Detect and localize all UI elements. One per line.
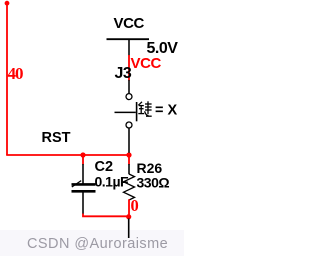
capacitor C2 top plate: [72, 183, 96, 186]
wire bottom red corner from capacitor to node 0: [83, 214, 129, 217]
wire VCC stem (black): [128, 39, 130, 55]
connector J3 pin 2 circle: [126, 122, 132, 128]
connector J3 pin 1 circle: [126, 94, 132, 100]
watermark strip: [0, 230, 184, 256]
svg-text:J3: J3: [115, 65, 132, 82]
wire below node 0 (black): [128, 219, 130, 239]
junction dot node 0: [126, 214, 131, 219]
svg-text:RST: RST: [42, 130, 71, 146]
svg-text:VCC: VCC: [131, 55, 162, 72]
wire RST horizontal (red): [6, 154, 129, 156]
capacitor C2 top plate slash: [72, 181, 81, 187]
wire J3 pin 2 to RST node (black): [128, 128, 130, 153]
power VCC terminal bar: [107, 38, 150, 40]
wire red stub below RST node to resistor: [128, 155, 130, 165]
wire capacitor bottom lead (black): [82, 193, 84, 215]
wire capacitor top lead (black): [82, 164, 84, 184]
svg-text:330Ω: 330Ω: [137, 175, 170, 191]
resistor R26 zigzag: [124, 174, 135, 200]
switch actuator bar: [136, 102, 138, 121]
switch contact line: [115, 111, 136, 113]
wire resistor bottom lead (red): [128, 199, 130, 216]
junction dot at switch/resistor branch: [126, 152, 131, 157]
svg-text:0: 0: [131, 196, 139, 215]
wire J3 pin 1 (black): [128, 80, 130, 93]
wire resistor top lead (black): [128, 164, 130, 174]
svg-text:40: 40: [8, 64, 24, 83]
svg-text:CSDN @Auroraisme: CSDN @Auroraisme: [27, 236, 168, 252]
label 键 = X (key glyph drawn as strokes): [138, 101, 151, 116]
svg-text:VCC: VCC: [114, 15, 145, 32]
node dot top of left wire: [5, 1, 10, 6]
wire red stub below RST node to capacitor: [82, 155, 84, 165]
wire left vertical (net 40): [6, 3, 8, 156]
junction dot at capacitor branch: [80, 152, 85, 157]
svg-text:= X: = X: [155, 103, 177, 119]
wire VCC net segment (red): [128, 55, 130, 81]
capacitor C2 bottom plate: [72, 190, 96, 193]
